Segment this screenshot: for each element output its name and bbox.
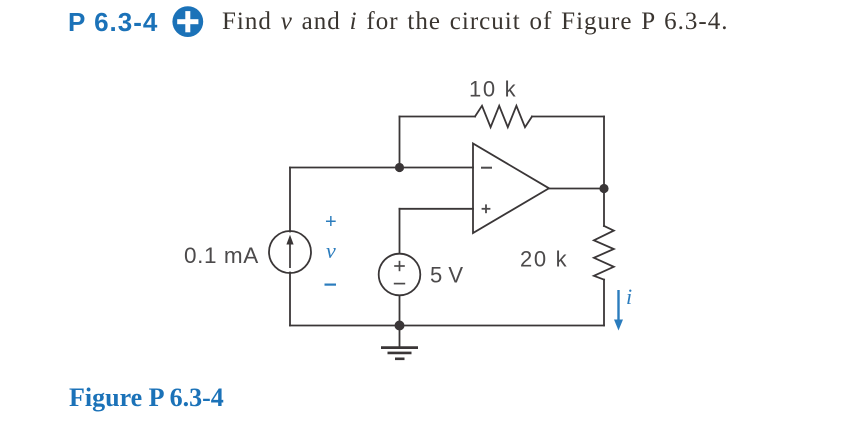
- op-amp U1 triangle: [473, 144, 549, 234]
- plus badge icon: [172, 6, 204, 38]
- svg-text:5 V: 5 V: [430, 263, 463, 288]
- junction node at output: [599, 184, 608, 193]
- wire: minus-input horizontal from left branch to op-amp: [290, 167, 473, 169]
- wire: right vertical output node to 20k: [603, 189, 605, 227]
- ground bars: [381, 348, 418, 359]
- svg-text:10 k: 10 k: [469, 77, 517, 102]
- wire: feedback top right horizontal: [532, 116, 604, 118]
- junction node at inverting input: [395, 163, 404, 172]
- wire: feedback vertical up from inverting node: [399, 117, 401, 168]
- svg-text:0.1 mA: 0.1 mA: [184, 243, 259, 268]
- wire: noninverting input horizontal: [400, 208, 474, 210]
- problem number P 6.3-4: [68, 7, 158, 38]
- resistor R2 20 k zigzag: [594, 226, 614, 280]
- svg-text:i: i: [626, 284, 632, 309]
- voltage source polarity plus: [394, 261, 405, 271]
- wire: 5V branch vertical upper: [399, 209, 401, 254]
- voltage source V1 circle: [379, 254, 421, 296]
- svg-text:20 k: 20 k: [520, 247, 568, 272]
- node label v minus: [325, 284, 337, 286]
- voltage source polarity minus: [394, 283, 405, 285]
- wire: right vertical 20k to bottom: [603, 280, 605, 326]
- wire: left vertical lower segment: [289, 273, 291, 326]
- problem statement text: [222, 8, 728, 36]
- wire: feedback top left horizontal: [400, 116, 476, 118]
- current source I1 circle: [269, 231, 311, 273]
- figure caption: [69, 383, 224, 413]
- op-amp minus pin label: [481, 167, 492, 169]
- op-amp plus pin label: [482, 204, 491, 213]
- wire: right vertical from feedback to output node: [603, 117, 605, 189]
- wire: 5V branch vertical lower: [399, 295, 401, 325]
- ground stem: [399, 326, 401, 347]
- svg-text:v: v: [326, 238, 336, 263]
- junction node at ground: [395, 321, 405, 331]
- resistor R1 10 k zigzag: [475, 106, 532, 127]
- wire: op-amp output: [549, 188, 604, 190]
- svg-text:+: +: [325, 211, 337, 233]
- current i arrow: [614, 290, 623, 331]
- current source arrow: [286, 235, 293, 268]
- wire: bottom horizontal: [290, 325, 604, 327]
- wire: left vertical upper segment: [289, 168, 291, 232]
